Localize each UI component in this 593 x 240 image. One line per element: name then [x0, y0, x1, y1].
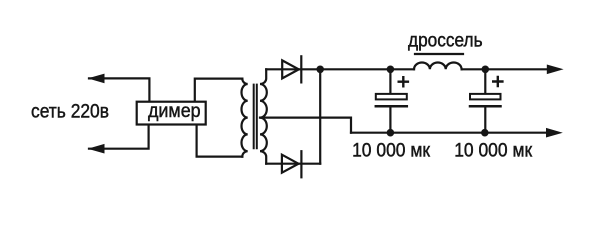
capacitor C1 plus plate — [376, 94, 407, 100]
capacitor C2 plus plate — [470, 94, 501, 100]
junction dot: C1 bottom — [387, 129, 395, 137]
junction dot: C1 top — [387, 66, 395, 74]
junction dot: D1/D2 outputs — [316, 66, 324, 74]
capacitor C1 top lead — [389, 69, 391, 94]
wire: top rail from inductor to right output — [462, 68, 549, 70]
svg-text:дроссель: дроссель — [408, 29, 483, 51]
dimmer box — [137, 102, 206, 125]
capacitor C1 negative plate — [376, 105, 407, 108]
arrowhead: top-left AC input — [88, 74, 105, 84]
capacitor C1 polarity plus sign — [399, 77, 408, 86]
arrowhead: top-right output — [547, 65, 564, 75]
junction dot: C2 bottom — [481, 129, 489, 137]
inductor L1 (choke) — [414, 62, 462, 69]
wire: secondary center tap to bottom rail — [260, 118, 351, 133]
wire: top-left AC input to dimmer — [89, 78, 149, 101]
wire: bottom-left AC input to dimmer — [89, 125, 149, 149]
svg-text:сеть 220в: сеть 220в — [31, 101, 109, 123]
diode D1 (top) — [282, 56, 301, 82]
junction dot: C2 top — [482, 66, 490, 74]
wire: bottom output rail — [351, 132, 549, 134]
transformer T1 primary winding — [241, 79, 247, 157]
svg-text:10 000 мк: 10 000 мк — [454, 140, 532, 162]
capacitor C2 bottom lead — [484, 106, 486, 133]
wire: secondary bottom to diode D2 — [266, 163, 320, 165]
choke label underline — [415, 53, 463, 55]
svg-text:10 000 мк: 10 000 мк — [352, 140, 430, 162]
arrowhead: bottom-left AC input — [88, 144, 105, 154]
svg-text:димер: димер — [148, 100, 201, 122]
transformer T1 core — [254, 85, 257, 149]
transformer T1 secondary winding — [260, 69, 267, 163]
wire: secondary top to diode D1 — [266, 68, 414, 70]
capacitor C2 polarity plus sign — [493, 77, 502, 86]
wire: dimmer top to transformer primary top — [195, 79, 243, 102]
arrowhead: bottom-right output — [546, 128, 563, 138]
wire: diode D2 output up to top rail junction — [319, 69, 321, 163]
capacitor C1 bottom lead — [389, 106, 391, 133]
capacitor C2 negative plate — [470, 105, 501, 108]
wire: dimmer bottom to transformer primary bottom — [197, 125, 243, 157]
diode D2 (bottom) — [282, 151, 302, 177]
capacitor C2 top lead — [484, 69, 486, 94]
